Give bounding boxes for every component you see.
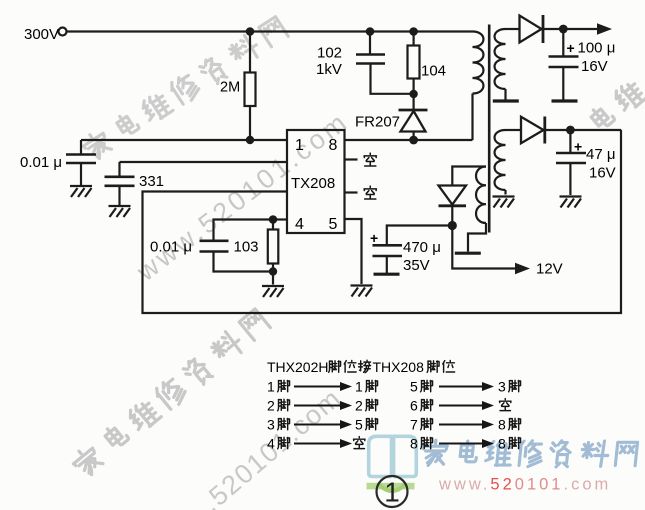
wire 12V output	[452, 226, 516, 269]
arrow output 12V	[515, 263, 530, 274]
wire capacitor 102 bottom	[371, 64, 414, 94]
svg-text:4: 4	[295, 216, 304, 233]
table title THX202H pin to TX208 pin	[267, 359, 455, 375]
diode D3 body	[439, 186, 467, 205]
svg-text:3: 3	[498, 379, 506, 395]
svg-text:1: 1	[267, 379, 275, 395]
logo green sprout	[379, 485, 405, 492]
label NC kong lower	[364, 186, 376, 199]
ground under pin5	[351, 286, 373, 297]
svg-text:FR207: FR207	[355, 114, 400, 131]
svg-text:470 μ: 470 μ	[403, 239, 441, 256]
svg-text:300V: 300V	[24, 26, 59, 43]
diode FR207 body	[401, 111, 426, 132]
svg-text:104: 104	[421, 63, 446, 80]
watermark gray right edge characters	[589, 78, 645, 133]
transformer secondary 2 winding	[495, 130, 506, 190]
capacitor C1 0.01u lead	[80, 140, 82, 154]
table row 1	[267, 379, 521, 395]
svg-text:4: 4	[267, 436, 275, 452]
diode D2 body	[521, 117, 544, 143]
capacitor C2 331	[105, 177, 135, 186]
wire D1 output	[543, 28, 598, 30]
svg-text:5: 5	[410, 379, 418, 395]
wire 300V top rail	[67, 30, 473, 32]
node dot D1 output	[559, 25, 568, 34]
wire pin5	[345, 219, 362, 284]
wire secondary1 bottom lead	[504, 89, 506, 100]
ground under C1	[70, 186, 92, 197]
wire secondary2 bottom lead	[504, 190, 506, 195]
node dot rail-2M	[246, 27, 255, 36]
ground under secondary2	[493, 197, 515, 208]
svg-text:16V: 16V	[581, 58, 608, 75]
terminal 300V input	[59, 28, 67, 36]
svg-text:8: 8	[410, 436, 418, 452]
svg-text:5: 5	[329, 216, 338, 233]
wire primary bottom lead	[471, 94, 473, 141]
transformer feedback winding	[476, 167, 486, 224]
wire C3 bottom	[214, 252, 274, 272]
wire 100u top lead	[562, 29, 564, 56]
wire 470u bottom lead	[386, 256, 388, 273]
ground under 47u	[560, 197, 582, 208]
wire R104 top lead	[413, 32, 415, 46]
wire feedback winding top to diode D3	[452, 167, 486, 186]
svg-text:2M: 2M	[220, 80, 240, 96]
svg-text:331: 331	[139, 173, 164, 190]
watermark gray diagonal text C (bottom-left)	[69, 307, 271, 480]
capacitor 100u 16V	[549, 57, 579, 68]
diode D2 cathode bar	[543, 117, 546, 144]
svg-text:16V: 16V	[589, 165, 616, 182]
ground under C2 331	[109, 206, 131, 217]
transformer core	[488, 25, 491, 233]
label NC kong upper	[364, 153, 376, 166]
transformer primary winding	[473, 32, 484, 94]
ground bar under secondary1	[493, 100, 519, 102]
node dot R103 top	[269, 215, 278, 224]
svg-text:+: +	[370, 230, 378, 246]
table row 2	[267, 398, 511, 414]
table row 3	[267, 417, 521, 433]
svg-text:0.01 μ: 0.01 μ	[20, 154, 62, 171]
diode D1 cathode bar	[542, 15, 545, 43]
svg-text:7: 7	[410, 417, 418, 433]
ground bar under 470u	[374, 273, 400, 275]
wire stub NC pin7	[345, 158, 358, 160]
svg-text:+: +	[567, 40, 575, 56]
node dot R103 bottom	[269, 267, 277, 275]
logo blue text 家电维修资料网	[421, 440, 637, 467]
wire R103 network top	[214, 220, 274, 241]
svg-text:3: 3	[267, 417, 275, 433]
svg-text:100 μ: 100 μ	[578, 40, 616, 57]
node dot D2 output	[566, 126, 575, 135]
transformer secondary 1 winding	[495, 29, 506, 89]
wire pin1 from junction	[81, 139, 287, 141]
ground bar under 100u	[552, 100, 578, 102]
capacitor 470u 35V	[373, 245, 403, 256]
svg-text:35V: 35V	[403, 257, 430, 274]
wire 47u bottom lead	[569, 163, 571, 195]
wire 2M bottom lead	[249, 106, 251, 140]
svg-text:www.520101.com: www.520101.com	[438, 476, 611, 494]
svg-text:103: 103	[234, 239, 259, 256]
svg-text:6: 6	[410, 398, 418, 414]
arrow output top	[597, 23, 612, 34]
svg-text:2: 2	[355, 398, 363, 414]
wire R103 bottom lead	[272, 264, 274, 285]
wire 47u top lead	[569, 130, 571, 153]
ground under R103	[262, 286, 284, 297]
node dot pin1 junction	[246, 136, 254, 144]
svg-text:TX208: TX208	[291, 175, 335, 192]
svg-text:8: 8	[498, 417, 506, 433]
circled figure number 1	[377, 476, 408, 507]
table row 4	[267, 436, 521, 452]
logo green underline bar	[367, 483, 415, 490]
node dot rail-104	[409, 27, 418, 36]
wire stub NC pin6	[345, 191, 358, 193]
svg-text:1: 1	[355, 379, 363, 395]
watermark gray diagonal text A (top)	[80, 15, 289, 164]
wire 100u bottom lead	[562, 67, 564, 100]
wire D2 to loop corner	[545, 129, 621, 131]
wire R104 bottom lead	[413, 79, 415, 110]
svg-text:1: 1	[384, 477, 400, 508]
capacitor C3 0.01u (103 net)	[200, 241, 229, 252]
resistor R104	[408, 46, 420, 79]
wire 2M top lead	[249, 32, 251, 73]
node dot 470u-D3	[448, 221, 457, 230]
op IC U1 TX208 box	[287, 130, 345, 233]
svg-text:+: +	[574, 139, 582, 155]
logo book icon	[369, 436, 417, 476]
capacitor 47u 16V	[556, 153, 586, 163]
node dot FR207 anode	[409, 136, 418, 145]
wire pin3 feedback loop	[143, 130, 622, 313]
svg-text:8: 8	[498, 436, 506, 452]
svg-text:1: 1	[295, 137, 304, 154]
capacitor C1 0.01u	[66, 155, 96, 164]
diode D1 body	[520, 16, 542, 43]
wire FR207 anode lead	[413, 132, 415, 141]
diode D3 cathode bar	[439, 204, 467, 207]
svg-text:THX208: THX208	[373, 359, 425, 375]
resistor R103	[268, 230, 279, 264]
wire 470u top	[387, 226, 453, 246]
svg-text:0.01 μ: 0.01 μ	[150, 239, 192, 256]
wire feedback winding bottom	[468, 223, 486, 252]
resistor 2M	[245, 73, 256, 107]
ground bar under feedback winding	[455, 252, 481, 254]
node dot rail-102	[366, 27, 375, 36]
svg-text:1kV: 1kV	[316, 61, 342, 78]
svg-text:5: 5	[355, 417, 363, 433]
svg-text:8: 8	[329, 137, 338, 154]
wire secondary2 to diode D2	[506, 129, 522, 131]
svg-text:12V: 12V	[536, 261, 563, 278]
svg-text:102: 102	[317, 45, 342, 62]
svg-text:THX202H: THX202H	[267, 359, 328, 375]
diode FR207 cathode bar	[399, 109, 428, 112]
wire D3 cathode to node	[451, 206, 453, 226]
wire R103 top lead	[272, 220, 274, 230]
node dot snubber junction	[409, 90, 417, 98]
wire secondary1 to diode D1	[506, 28, 520, 30]
wire capacitor 102 top lead	[369, 32, 371, 55]
wire C1 to ground	[80, 163, 82, 185]
wire pin8	[345, 139, 473, 141]
wire C2 to ground	[118, 186, 120, 205]
svg-text:2: 2	[267, 398, 275, 414]
svg-text:47 μ: 47 μ	[586, 146, 616, 163]
capacitor 102 1kV	[356, 55, 385, 64]
wire pin2	[120, 162, 288, 177]
wire pin4	[273, 218, 287, 220]
